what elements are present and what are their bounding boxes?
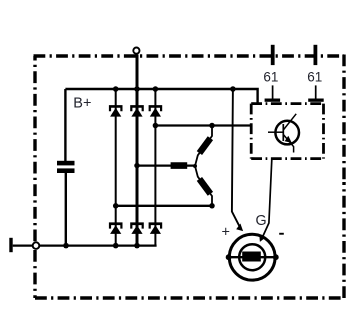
wire: ground rail (bottom horizontal) <box>13 244 157 246</box>
node: ground junction col2 <box>134 243 140 249</box>
wire: phase column 3 (vertical) <box>154 89 156 234</box>
terminal B- (left, bar + open circle on boundary) <box>9 238 12 252</box>
node: phase3 tap <box>153 123 159 129</box>
diode D5 (bottom row, middle) <box>130 222 144 234</box>
transistor Q1 (regulator) <box>268 114 299 153</box>
stator winding W1 (upper, diagonal) <box>195 126 212 167</box>
terminal 61 (right): bar on boundary <box>314 45 318 65</box>
node: winding W1 top <box>209 123 215 129</box>
wire: middle phase line <box>137 164 195 166</box>
wire: phase column 2 / main feed (vertical, thicker) <box>136 55 139 246</box>
node: ground junction capacitor <box>63 243 69 249</box>
field winding (filled rect) <box>242 252 261 262</box>
diode D1 (top row, left) <box>109 105 123 117</box>
wire: phase column 1 (vertical) <box>115 89 117 246</box>
node: winding W3 bottom <box>209 203 215 209</box>
node: ground junction col1 <box>113 243 119 249</box>
alternator housing boundary (dash-dot frame) <box>34 55 345 299</box>
diode D2 (top row, middle) <box>130 105 144 117</box>
wire: phase tap line to regulator (upper horizontal) <box>155 124 251 126</box>
regulator box (dash-dot) <box>251 104 323 159</box>
terminal 61 (left): bar on boundary <box>271 45 275 65</box>
terminal 61 (right): lead and T-bar into regulator box <box>315 85 317 98</box>
node: rail junction col2 <box>134 86 140 92</box>
rotor shaft line between brushes <box>229 256 276 258</box>
terminal 61 (left): lead and T-bar into regulator box <box>272 85 274 98</box>
wire: field supply line (B+ rail to + brush) <box>232 89 240 227</box>
svg-text:61: 61 <box>307 70 322 85</box>
wire: B+ rail (top horizontal, turns down to regulator box) <box>65 89 257 103</box>
stator winding W2 (middle, horizontal) <box>171 162 188 169</box>
terminal B+ (top, open circle) <box>133 48 139 54</box>
wire: regulator output to - brush <box>263 160 272 237</box>
svg-text:G: G <box>256 213 267 229</box>
node: lower phase tap on col1 <box>113 203 119 209</box>
capacitor C1 <box>57 161 75 173</box>
stator winding W3 (lower, diagonal) <box>195 166 212 206</box>
node: winding W2 tap on col2 <box>134 163 140 169</box>
wire: col3 lower corner <box>154 234 156 246</box>
diode D3 (top row, right) <box>149 105 163 117</box>
node: star point <box>193 164 197 168</box>
svg-text:B+: B+ <box>73 95 91 111</box>
rotor inner circle <box>239 244 265 270</box>
node: rail junction col3 <box>153 86 159 92</box>
node: rail junction col1 <box>113 86 119 92</box>
arrow to - brush <box>259 235 266 242</box>
diode D4 (bottom row, left) <box>109 222 123 234</box>
svg-text:61: 61 <box>263 70 278 85</box>
wire: left branch from rail down to capacitor <box>64 89 66 161</box>
wire: capacitor bottom to ground rail <box>65 173 67 246</box>
brush + (left dot) <box>226 254 232 260</box>
wire: lower phase line <box>116 205 212 207</box>
svg-text:+: + <box>222 225 230 241</box>
label - (brush polarity) <box>279 233 284 235</box>
node: rail junction field branch <box>230 86 236 92</box>
diode D6 (bottom row, right) <box>149 222 163 234</box>
arrow to + brush <box>236 224 243 232</box>
rotor / generator G: outer circle <box>229 234 275 280</box>
brush - (right dot) <box>273 254 279 260</box>
